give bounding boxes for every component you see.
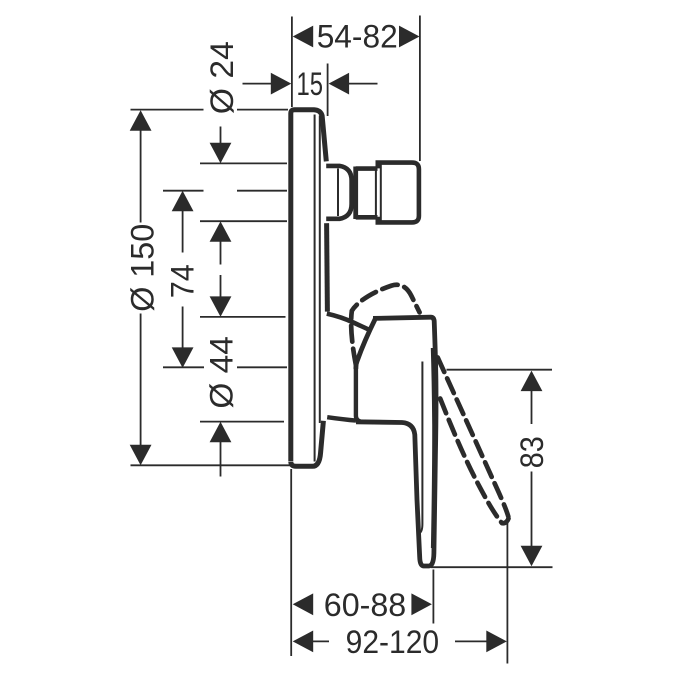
dimension O24 vertical arrows (220, 127, 222, 265)
svg-text:Ø 150: Ø 150 (125, 224, 161, 312)
extension line knob tip (right of 54-82) (419, 16, 421, 162)
dimension 83 line and arrows (531, 391, 533, 546)
extension line wall bottom (290, 469, 292, 656)
svg-text:Ø 44: Ø 44 (204, 336, 240, 409)
svg-text:92-120: 92-120 (346, 624, 440, 660)
tick knob bottom (O24) (200, 220, 287, 222)
tick knob top (O24) (200, 162, 287, 164)
svg-text:60-88: 60-88 (324, 587, 407, 623)
tick 83 top (447, 369, 553, 371)
svg-text:54-82: 54-82 (317, 19, 398, 55)
escutcheon plate outline (291, 110, 327, 461)
tick knob centerline (163, 190, 287, 192)
dimension O44 vertical arrows (220, 275, 222, 477)
knob base edge (353, 167, 358, 220)
extension line handle front bottom (432, 570, 434, 624)
tick 83 bottom (431, 566, 553, 568)
svg-text:Ø 24: Ø 24 (204, 41, 240, 114)
knob neck thin line (337, 169, 339, 217)
handle hub bottom (327, 417, 356, 420)
plate inner thin line 1 (314, 115, 316, 462)
dimension 54-82 arrows (293, 26, 420, 48)
knob neck with dome end (326, 166, 351, 219)
dashed handle raised position arc (351, 285, 419, 365)
knob grip (378, 163, 419, 223)
plate inner thin line 2 (319, 116, 321, 424)
tick hub bottom (O44) (200, 421, 284, 423)
svg-text:74: 74 (165, 264, 201, 298)
handle hub front edge (356, 367, 361, 422)
tick plate top (131, 109, 289, 111)
dimension 60-88 arrows (293, 593, 432, 615)
lever handle outline (356, 317, 436, 566)
tick hub top (O44) (200, 316, 286, 318)
dimension 92-120 arrows and tails (313, 640, 487, 642)
tick plate bottom (131, 464, 294, 466)
extension line plate front (right of 15) (327, 64, 329, 117)
svg-text:15: 15 (297, 66, 324, 102)
lever right face line (432, 348, 433, 548)
extension line dashed-lever tip (506, 516, 508, 664)
knob middle section (356, 169, 378, 218)
dashed handle raised position lower outline (440, 399, 502, 524)
extension line wall top (left of 54-82) (291, 17, 293, 108)
dimension 15 arrows and tails (243, 83, 378, 85)
dashed handle tip cap (503, 519, 509, 524)
dimension O150 line and arrows (140, 130, 142, 445)
dimension 74 line and arrows (182, 211, 184, 348)
dashed handle raised position upper outline (438, 358, 509, 517)
knob step thin lines (376, 165, 381, 221)
svg-text:83: 83 (514, 436, 550, 468)
handle hub top arc (327, 314, 371, 331)
tick handle centerline (163, 366, 287, 368)
lever inner thin line (419, 362, 423, 534)
